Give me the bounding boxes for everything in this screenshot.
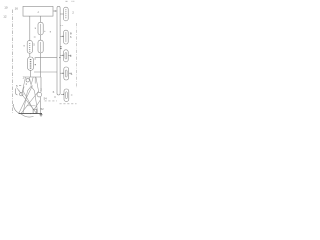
- svg-text:52: 52: [41, 107, 45, 111]
- svg-text:=: =: [71, 93, 73, 97]
- svg-text:16: 16: [15, 7, 19, 11]
- svg-text:54: 54: [44, 96, 48, 100]
- svg-text:=: =: [71, 72, 73, 76]
- svg-text:10: 10: [4, 6, 8, 10]
- svg-text:=: =: [70, 55, 72, 59]
- svg-text:12: 12: [3, 15, 7, 19]
- svg-text:t: t: [19, 89, 20, 93]
